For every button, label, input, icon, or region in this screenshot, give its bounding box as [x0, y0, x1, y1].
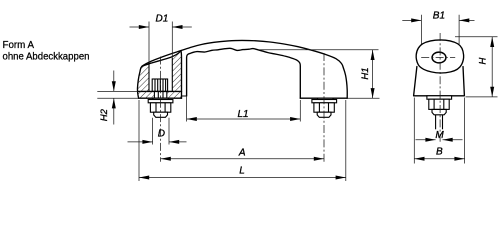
svg-text:Form A: Form A [3, 39, 35, 51]
svg-text:B1: B1 [433, 11, 445, 22]
svg-text:M: M [435, 130, 444, 141]
svg-text:L: L [239, 165, 245, 176]
svg-text:H2: H2 [99, 108, 110, 121]
svg-text:H1: H1 [360, 67, 371, 79]
svg-text:ohne Abdeckkappen: ohne Abdeckkappen [3, 51, 90, 63]
svg-text:A: A [238, 148, 246, 159]
svg-text:B: B [436, 146, 443, 157]
svg-text:H: H [478, 58, 489, 65]
svg-text:D: D [158, 128, 165, 139]
svg-text:D1: D1 [156, 14, 169, 25]
svg-text:L1: L1 [237, 109, 248, 120]
